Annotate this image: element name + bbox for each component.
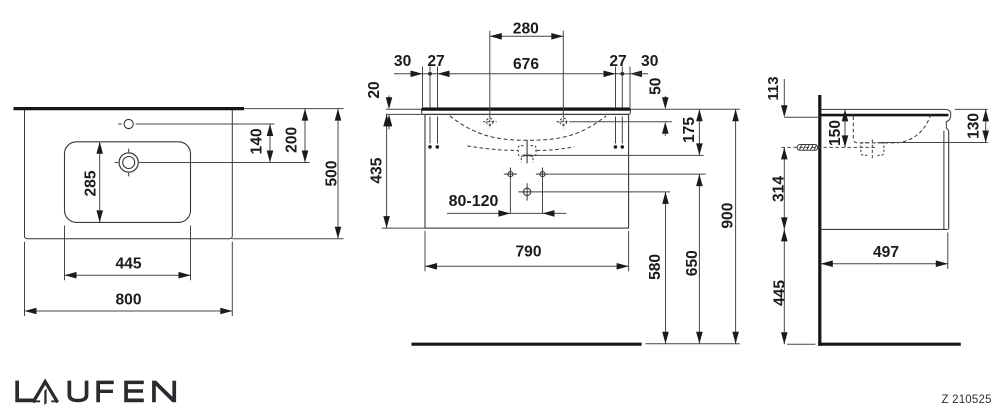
washbasin side profile (820, 109, 951, 130)
cabinet bottom extension left (382, 227, 425, 229)
dimension 314 (770, 147, 787, 229)
dimension 790 (425, 244, 629, 270)
floor extension line (646, 343, 740, 345)
extension lines 790 (425, 231, 629, 271)
dimension 900 (720, 109, 739, 343)
extension lines 280 (490, 31, 564, 115)
extension line overflow (136, 123, 275, 125)
dimension 200 (284, 109, 309, 163)
label 30 right (641, 53, 659, 70)
washbasin top view: outer rim 800x500 (25, 110, 233, 239)
dimension 175 (681, 109, 703, 155)
svg-text:30: 30 (641, 53, 659, 70)
svg-text:30: 30 (394, 53, 412, 70)
dimension 20 (366, 81, 425, 129)
dimension 113 (765, 76, 820, 117)
extension lines 800 (25, 242, 233, 316)
dimension 80-120 (447, 181, 566, 217)
part number Z 210525 (942, 394, 992, 406)
wall line (thick) (818, 95, 821, 346)
dimension 130 (880, 109, 989, 142)
vanity cabinet front view (425, 114, 629, 228)
svg-text:800: 800 (115, 292, 141, 309)
svg-text:Z 210525: Z 210525 (942, 394, 992, 406)
svg-text:900: 900 (720, 202, 737, 228)
basin dashed profile side (853, 115, 930, 143)
dimension 500 (324, 109, 342, 239)
dimension 435 (369, 114, 390, 228)
cabinet fixing dots (428, 145, 624, 149)
basin bottom dashed (front) (467, 146, 574, 151)
svg-text:50: 50 (648, 77, 665, 95)
floor line (thick) (412, 343, 642, 346)
dimension 280 (490, 21, 564, 40)
extension lines 445 (65, 226, 191, 281)
svg-text:650: 650 (684, 250, 701, 276)
dimension 445 side (772, 229, 816, 344)
LAUFEN logo (15, 381, 176, 405)
mounting axis dashed (782, 146, 878, 148)
extension line bottom right (232, 238, 343, 240)
outlet hole right (536, 168, 549, 181)
svg-text:445: 445 (772, 280, 789, 306)
extension line tap hole (140, 162, 309, 164)
svg-text:435: 435 (369, 157, 386, 183)
svg-text:20: 20 (366, 81, 383, 99)
reference lines right (532, 109, 740, 192)
svg-text:113: 113 (765, 76, 782, 100)
dimension 285 (82, 142, 103, 223)
svg-text:175: 175 (681, 117, 698, 143)
svg-text:140: 140 (249, 128, 266, 154)
svg-text:790: 790 (515, 244, 541, 261)
siphon drain (523, 140, 532, 164)
dimension 497 (821, 232, 948, 269)
svg-text:200: 200 (284, 126, 301, 152)
svg-text:130: 130 (965, 113, 982, 139)
svg-text:280: 280 (513, 21, 539, 38)
fixing hole left (dashed) (483, 115, 497, 128)
washbasin top view: back edge (thick) (14, 107, 245, 110)
outlet hole left (504, 168, 517, 181)
dimension 650 (684, 174, 703, 344)
washbasin slab front view (422, 108, 631, 115)
extension line top edge (244, 108, 344, 110)
svg-text:150: 150 (827, 120, 844, 146)
svg-text:445: 445 (115, 255, 141, 272)
dimension 800 (25, 292, 233, 315)
dimension chain 30-27-676-27-30 line (394, 71, 648, 78)
svg-text:497: 497 (873, 244, 899, 261)
floor line side (thick) (818, 343, 961, 346)
basin outline dashed (front) (450, 116, 606, 141)
svg-text:500: 500 (324, 160, 341, 186)
label 27 left (427, 53, 444, 70)
tap hole (115, 149, 143, 177)
fixing hole right (dashed) (557, 115, 571, 128)
dimension 150 (827, 109, 848, 147)
drain hole centre (518, 183, 535, 200)
label 27 right (609, 53, 626, 70)
svg-text:27: 27 (609, 53, 626, 70)
siphon dashed side (861, 140, 884, 159)
overflow hole (118, 119, 139, 128)
svg-text:314: 314 (770, 176, 787, 202)
svg-text:580: 580 (647, 254, 664, 280)
dimension 445 (65, 255, 191, 278)
dimension 50 (648, 77, 669, 136)
label 30 left (394, 53, 412, 70)
siphon recess dashed (518, 146, 536, 163)
svg-text:285: 285 (82, 170, 99, 196)
dimension 140 (249, 124, 274, 163)
svg-text:80-120: 80-120 (449, 193, 499, 210)
label 676 (513, 56, 539, 73)
dimension 580 (647, 192, 669, 344)
svg-text:27: 27 (427, 53, 444, 70)
washbasin top view: inner basin (65, 142, 191, 223)
chain extension lines (423, 67, 631, 144)
wall anchor screw (797, 145, 817, 151)
svg-text:676: 676 (513, 56, 539, 73)
cabinet side profile (820, 131, 949, 230)
